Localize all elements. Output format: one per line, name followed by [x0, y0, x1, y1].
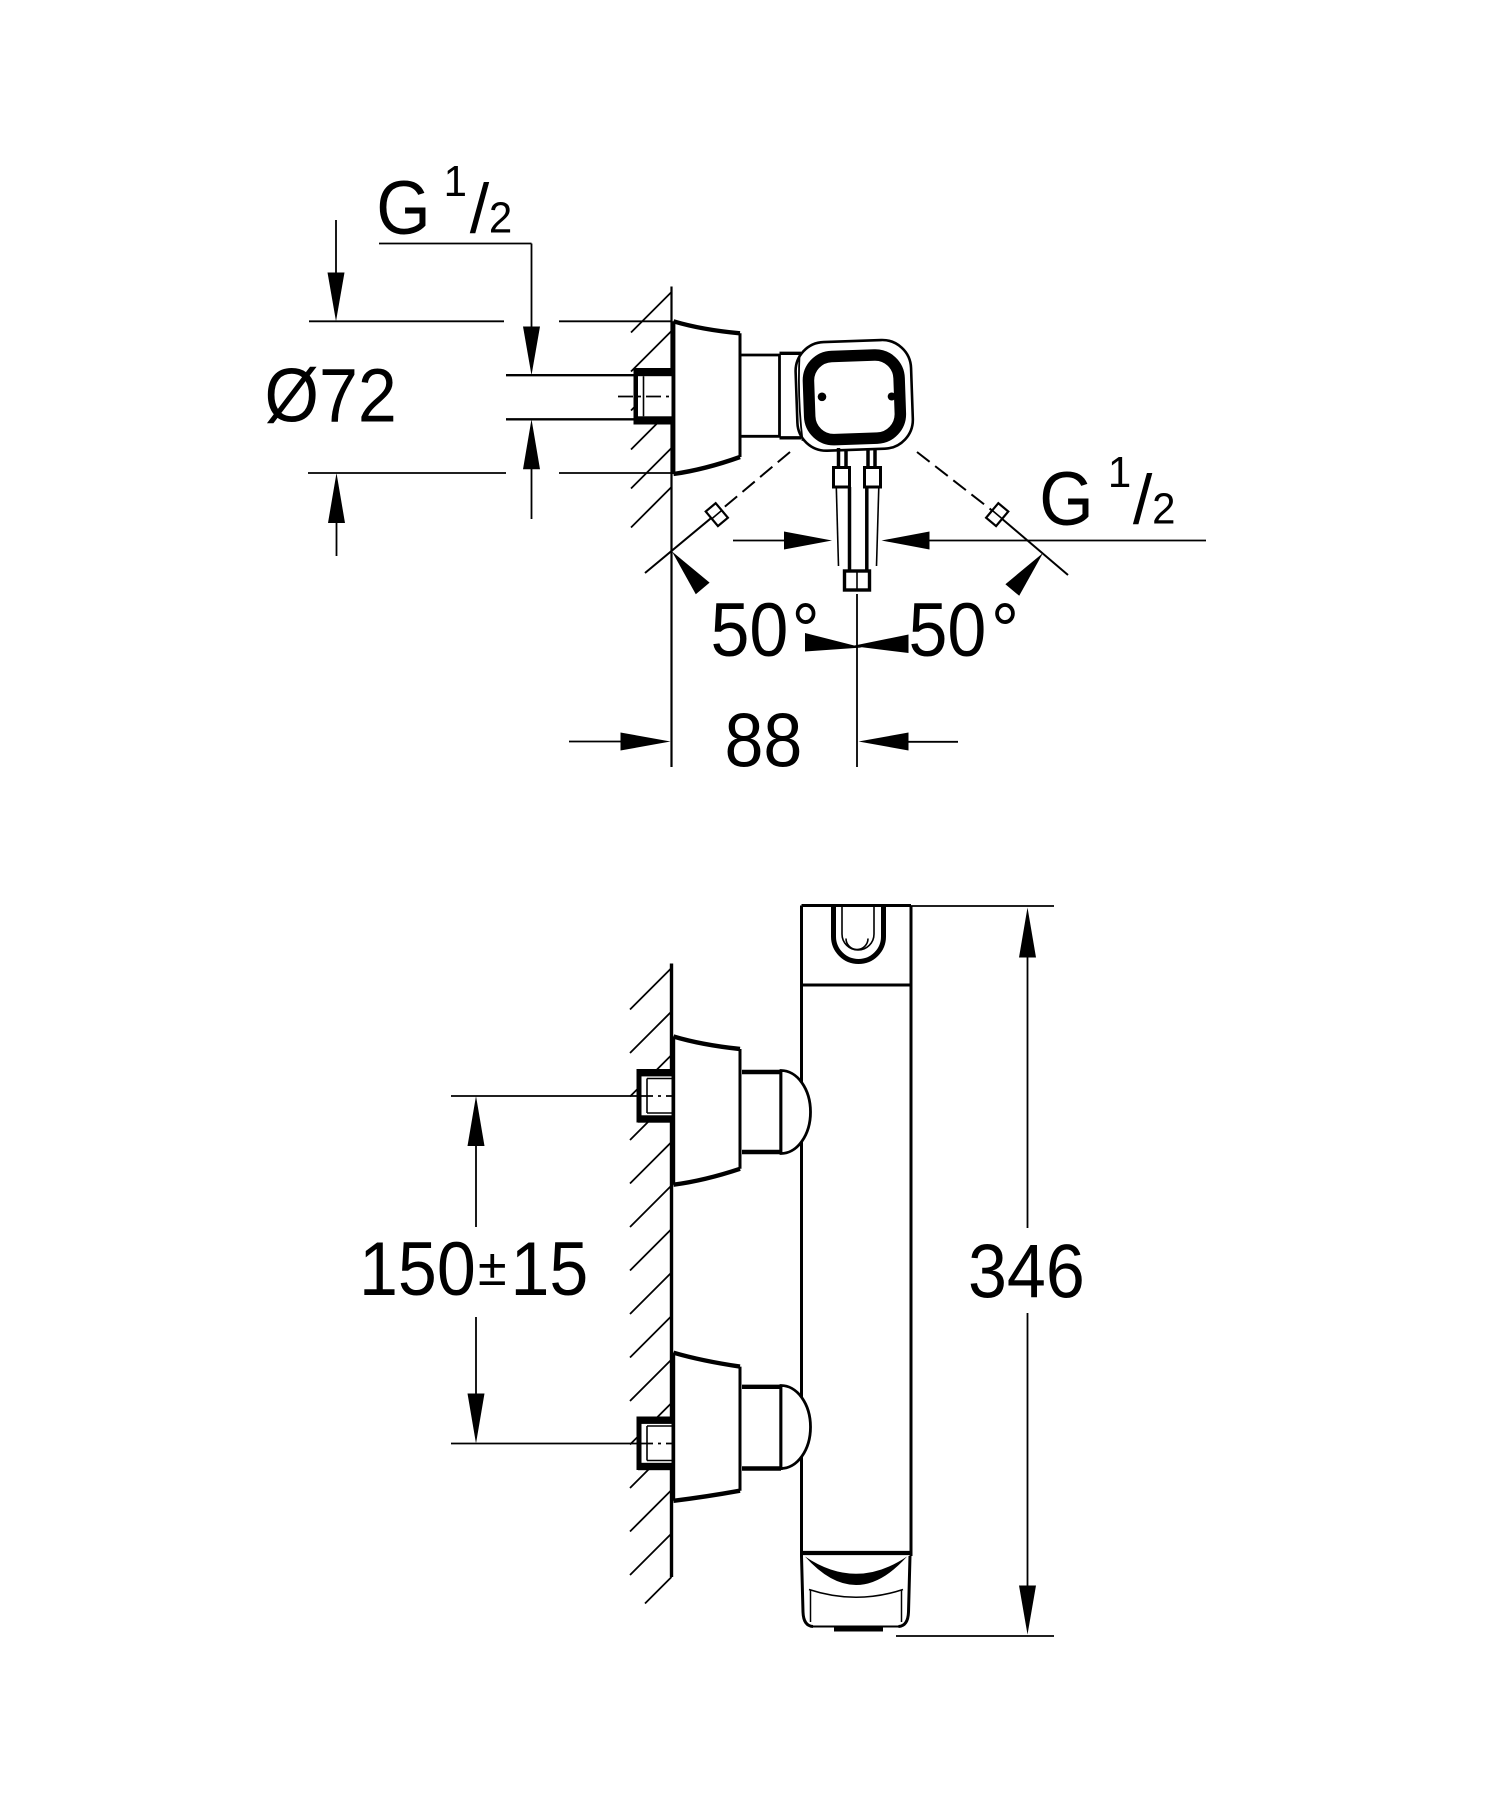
- upper union nose (lower view): [781, 1071, 811, 1154]
- svg-text:346: 346: [968, 1230, 1085, 1314]
- svg-text:50: 50: [909, 588, 987, 672]
- G 1/2 label (right): [1039, 448, 1175, 541]
- svg-text:88: 88: [725, 699, 803, 783]
- svg-text:Ø72: Ø72: [265, 354, 397, 438]
- G 1/2 dimension (top) leader: [379, 244, 532, 328]
- handle end cap (upper view): [845, 571, 870, 590]
- 346 dimension line and arrows: [1019, 908, 1036, 1635]
- 150 extension line (lower): [451, 1443, 637, 1445]
- union ring (upper view): [780, 353, 802, 438]
- cartridge head squircle (upper view): [795, 339, 914, 452]
- 88 dimension arrows: [621, 733, 909, 751]
- upper union (lower view): [742, 1070, 781, 1154]
- svg-text:15: 15: [511, 1227, 589, 1311]
- 50deg vertex bowtie arrows: [805, 633, 862, 652]
- 150+-15 label: [359, 1227, 588, 1311]
- G 1/2 dimension (top) arrows: [523, 327, 540, 520]
- O72 dimension arrows: [328, 220, 346, 556]
- lower inlet centre line (lower view): [638, 1443, 674, 1445]
- svg-text:G: G: [376, 166, 430, 250]
- O72 extension lines: [308, 321, 672, 473]
- escutcheon cone (upper view): [674, 321, 741, 474]
- swing axis leg (right): [994, 512, 1068, 575]
- G 1/2 label (top): [376, 157, 512, 250]
- handle axis centre line: [856, 594, 858, 767]
- wall line (upper view): [670, 287, 672, 768]
- 50deg arc arrowhead (right): [1005, 553, 1043, 596]
- lower inlet nut (lower view): [637, 1417, 672, 1471]
- lower union nose (lower view): [781, 1386, 811, 1469]
- handle neck (upper view): [839, 448, 876, 468]
- G 1/2 dimension (right) arrows: [784, 532, 930, 550]
- svg-text:150: 150: [359, 1227, 476, 1311]
- swing axis dashed (right): [917, 452, 994, 512]
- pipe nut at wall (upper view): [634, 368, 672, 425]
- svg-text:2: 2: [489, 194, 512, 243]
- svg-text:±: ±: [478, 1239, 507, 1297]
- upper escutcheon (lower view): [674, 1037, 741, 1185]
- svg-text:1: 1: [444, 157, 467, 206]
- shower hook notch (lower view): [834, 905, 884, 962]
- svg-text:°: °: [991, 588, 1019, 672]
- 150 extension line (upper): [451, 1095, 637, 1097]
- G 1/2 dimension (right) leader: [733, 540, 1206, 542]
- svg-text:50: 50: [711, 588, 789, 672]
- 346 extension lines: [896, 906, 1054, 1636]
- 88 dimension lines: [569, 741, 958, 743]
- swing axis leg (left): [645, 513, 717, 573]
- upper inlet centre line (lower view): [638, 1095, 674, 1097]
- head screw dots (upper view): [818, 393, 827, 402]
- wall line (lower view): [670, 964, 673, 1578]
- upper inlet nut (lower view): [637, 1069, 672, 1123]
- supply pipe stub (upper view): [506, 375, 636, 419]
- pipe centre line (upper view): [618, 396, 673, 398]
- bottom outlet cap (lower view): [802, 1553, 911, 1629]
- svg-text:2: 2: [1152, 485, 1175, 534]
- swing end tick (left): [706, 503, 728, 526]
- faucet body (lower view): [802, 906, 912, 1558]
- faucet body tube (upper view): [740, 354, 780, 437]
- swing axis dashed (left): [717, 452, 790, 513]
- lower union (lower view): [742, 1385, 781, 1470]
- handle collar (upper view): [834, 468, 881, 488]
- svg-text:1: 1: [1108, 448, 1131, 497]
- 50deg arc arrowhead (left): [672, 552, 710, 595]
- wall hatching (lower view): [630, 968, 672, 1604]
- svg-text:°: °: [792, 588, 820, 672]
- wall hatching (upper view): [631, 292, 672, 528]
- lower escutcheon (lower view): [674, 1353, 741, 1501]
- swing end tick (right): [986, 503, 1008, 526]
- svg-text:G: G: [1039, 457, 1093, 541]
- svg-text:/: /: [1133, 461, 1153, 539]
- svg-text:/: /: [470, 170, 490, 248]
- handle shaft (upper view): [836, 487, 879, 570]
- 150 dimension line and arrows: [468, 1096, 485, 1444]
